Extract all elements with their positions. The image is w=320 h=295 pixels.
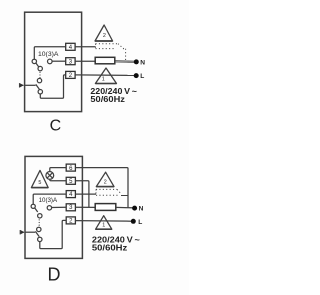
- switch contact circle bottom (C): [38, 90, 42, 94]
- svg-text:50/60Hz: 50/60Hz: [90, 95, 125, 104]
- dashed wire lower (C): [96, 48, 116, 50]
- terminal 4 (C): [66, 43, 75, 51]
- wire terminal 4 right stub (C): [75, 46, 95, 48]
- wire mains input to switch (C): [24, 84, 36, 86]
- appliance enclosure box C: [25, 12, 82, 111]
- note triangle 2 (C): [95, 25, 113, 41]
- mechanical link dots (C): [39, 72, 40, 78]
- dashed corner to N wire (C): [118, 44, 126, 49]
- note triangle 1 (D): [96, 216, 112, 230]
- svg-text:2: 2: [103, 33, 106, 39]
- mains input arrow (C): [19, 83, 21, 87]
- wire contact to terminal 3 (D): [52, 206, 67, 208]
- switch blade upper (D): [35, 208, 38, 212]
- switch contact circle upper-left (C): [32, 59, 36, 63]
- node L (D): [131, 219, 136, 224]
- heating element (D): [95, 204, 116, 211]
- dashed link vertical at wire end (C): [95, 44, 97, 49]
- switch contact circle right (C): [48, 59, 53, 64]
- terminal 3 (D): [66, 204, 75, 211]
- node N (D): [132, 206, 137, 211]
- dashed wire lower (D): [96, 194, 118, 196]
- svg-text:50/60Hz: 50/60Hz: [92, 243, 127, 252]
- wire terminal 5 drop to element feed (D): [75, 181, 89, 208]
- note triangle 5 (D): [31, 170, 48, 187]
- svg-text:D: D: [48, 264, 61, 284]
- mechanical link dots (D): [39, 219, 40, 225]
- wire terminal 3 to heating element (D): [75, 206, 95, 208]
- wire bottom contact to terminal 2 (C): [40, 75, 65, 98]
- terminal 3 (C): [66, 58, 75, 66]
- wire element to N (D): [116, 206, 135, 209]
- mains input arrow (D): [19, 230, 21, 234]
- switch contact circle right (D): [47, 206, 51, 210]
- terminal 2 (D): [66, 217, 75, 225]
- terminal 6 (D): [66, 164, 75, 172]
- dashed drop to N wire (C): [125, 49, 127, 62]
- wire terminal 6 to N bus (D): [75, 168, 128, 208]
- indicator lamp (D): [46, 172, 54, 180]
- wire mains input to switch (D): [25, 231, 36, 233]
- wire terminal4 to switch contact (C): [34, 47, 65, 59]
- appliance enclosure box D: [25, 156, 82, 258]
- wire element to N (C): [115, 60, 136, 62]
- note triangle 2 (D): [96, 172, 114, 186]
- svg-text:5: 5: [38, 180, 41, 186]
- wire terminal 2 to L (D): [75, 220, 132, 223]
- svg-text:L: L: [140, 73, 144, 80]
- switch contact circle bottom (D): [38, 237, 42, 241]
- switch pivot circle (D): [38, 214, 42, 218]
- switch contact circle above wire (D): [37, 227, 41, 231]
- svg-text:10(3)A: 10(3)A: [38, 51, 59, 58]
- switch blade upper (C): [36, 63, 39, 67]
- wire bottom contact to terminal 2 (D): [40, 220, 66, 248]
- switch blade lower (C): [36, 84, 40, 89]
- wire terminal 2 to L (C): [75, 74, 136, 77]
- node N (C): [134, 59, 139, 64]
- dashed link vertical at wire end (D): [95, 189, 97, 194]
- svg-text:1: 1: [102, 77, 105, 83]
- wire terminal 4 to switch contact (D): [33, 194, 66, 204]
- link to N bus (D): [121, 195, 128, 197]
- svg-text:L: L: [138, 219, 142, 226]
- node L (C): [134, 73, 139, 78]
- note triangle 1 (C): [95, 68, 116, 84]
- terminal 2 (C): [66, 71, 75, 79]
- wire lamp to terminal 6 (D): [50, 168, 66, 172]
- switch blade lower (D): [35, 231, 39, 236]
- wire lamp to terminal 5 (D): [50, 179, 66, 181]
- svg-text:N: N: [140, 59, 145, 66]
- svg-text:2: 2: [104, 180, 107, 186]
- terminal 5 (D): [66, 177, 75, 185]
- switch contact circle above wire (C): [37, 78, 41, 82]
- dashed wire upper (D): [96, 188, 117, 190]
- wire terminal 3 to heating element (C): [75, 60, 95, 62]
- terminal 4 (D): [66, 191, 75, 199]
- dashed wire upper (C): [96, 43, 119, 45]
- dashed corner to N bus (D): [117, 189, 121, 193]
- wire terminal 4 right stub (D): [75, 193, 96, 195]
- heating element (C): [95, 57, 115, 64]
- svg-text:N: N: [139, 206, 144, 213]
- switch contact circle upper-left (D): [31, 204, 35, 208]
- svg-text:C: C: [50, 117, 62, 134]
- wire contact to terminal 3 (C): [52, 60, 66, 62]
- switch pivot circle (C): [38, 66, 42, 70]
- svg-text:1: 1: [102, 222, 105, 228]
- svg-text:10(3)A: 10(3)A: [39, 197, 58, 204]
